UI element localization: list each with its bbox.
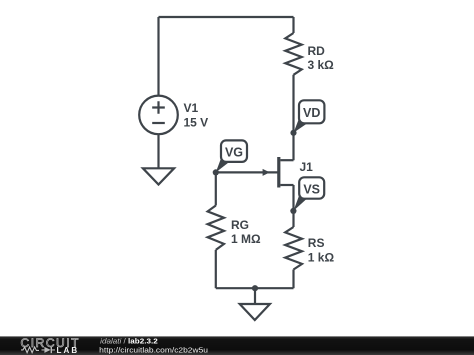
footer bar — [0, 336, 474, 355]
svg-text:http://circuitlab.com/c2b2w5u: http://circuitlab.com/c2b2w5u — [99, 346, 208, 355]
svg-text:RD: RD — [308, 44, 326, 58]
flag VS box — [299, 177, 324, 198]
svg-text:idalati / lab2.3.2: idalati / lab2.3.2 — [100, 337, 157, 346]
wire J1 source down to RS — [292, 185, 294, 227]
label RD value — [308, 44, 335, 72]
wire RS bottom lead — [292, 270, 294, 289]
resistor RD — [285, 33, 301, 75]
svg-text:VD: VD — [303, 106, 320, 120]
svg-text:1 MΩ: 1 MΩ — [231, 232, 261, 246]
svg-text:RG: RG — [231, 218, 249, 232]
logo resistor glyph — [21, 347, 39, 353]
transistor J1 (n-JFET) — [279, 157, 294, 188]
svg-text:1 kΩ: 1 kΩ — [308, 251, 335, 265]
node VD junction dot — [290, 130, 296, 136]
resistor RS — [285, 227, 302, 270]
svg-text:LAB: LAB — [57, 346, 80, 355]
wire V1 top lead — [157, 17, 159, 96]
node bottom junction dot — [252, 285, 258, 291]
svg-text:15 V: 15 V — [184, 116, 209, 130]
wire gate from node A to J1 — [216, 171, 278, 173]
wire V1 bottom lead — [157, 134, 159, 168]
flag VD pointer — [294, 118, 307, 133]
label RS value — [308, 236, 335, 265]
transistor J1 gate arrow — [263, 169, 270, 176]
label RG value — [231, 218, 261, 246]
ground (V1) — [143, 168, 174, 184]
wire RG bottom lead — [215, 250, 217, 288]
resistor RG — [208, 206, 224, 250]
wire node A down to RG — [215, 172, 217, 205]
node VS junction dot — [290, 208, 296, 214]
svg-text:VG: VG — [225, 145, 243, 159]
logo diode glyph — [44, 347, 50, 353]
svg-text:RS: RS — [308, 236, 325, 250]
wire top rail — [159, 16, 294, 18]
wire ground stub bottom — [254, 288, 256, 304]
wire RD bottom to drain — [292, 75, 294, 160]
wire bottom rail — [216, 287, 294, 289]
svg-text:VS: VS — [303, 182, 320, 196]
flag VD box — [299, 100, 324, 123]
label V1 value — [184, 101, 209, 129]
svg-text:J1: J1 — [300, 160, 314, 174]
flag VG pointer — [216, 157, 229, 172]
voltage source V1 — [139, 96, 178, 135]
flag VG box — [221, 140, 247, 162]
ground (bottom) — [240, 304, 270, 320]
wire RD top lead — [292, 17, 294, 33]
svg-text:V1: V1 — [184, 101, 199, 115]
node A (gate node) junction dot — [213, 169, 219, 175]
svg-text:3 kΩ: 3 kΩ — [308, 58, 335, 72]
flag VS pointer — [293, 194, 306, 211]
